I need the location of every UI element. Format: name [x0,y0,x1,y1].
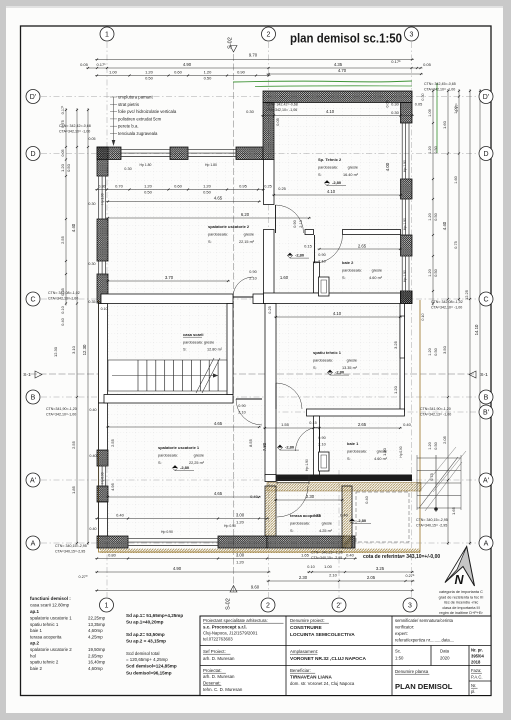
svg-text:tehn. C. D. Muresan: tehn. C. D. Muresan [203,687,243,692]
svg-text:hol: hol [30,653,36,658]
svg-text:CTA=342,10= -1,00: CTA=342,10= -1,00 [424,88,455,92]
svg-text:B: B [31,395,36,402]
svg-text:3.70: 3.70 [165,275,174,280]
svg-text:baie 2: baie 2 [342,260,354,265]
dim total 9.60 bottom [95,589,414,591]
right dim 12.25 [469,89,471,545]
svg-text:-2,80: -2,80 [285,445,295,450]
svg-text:0.50: 0.50 [144,190,153,195]
svg-text:pardoseala:: pardoseala: [313,359,333,363]
svg-text:folie pvc/ hidroizolatie verti: folie pvc/ hidroizolatie verticala [118,109,177,114]
window Hp0.90 left wall lower [98,466,108,486]
glazed door hol-terasa [277,475,309,485]
svg-text:0.50: 0.50 [434,442,438,449]
svg-text:13,35mp: 13,35mp [88,622,106,627]
surface totals list [126,613,183,676]
level marker spatiu tehnic 1 -2.80 [327,370,349,375]
svg-text:Nr.: Nr. [471,683,476,688]
svg-text:D': D' [483,94,489,101]
terrain level note left bottom [55,544,87,554]
right dim chain 2 [458,89,460,301]
axis marker D [26,147,40,161]
svg-text:4.65: 4.65 [214,421,223,426]
dim 6.20 spalatorie 2 - hol [106,217,311,219]
svg-text:gresie: gresie [244,233,254,237]
title block table [200,616,491,696]
svg-text:0.27⁵: 0.27⁵ [406,574,415,578]
svg-text:Sp. Tehnic 2: Sp. Tehnic 2 [318,157,342,162]
svg-text:0.30: 0.30 [246,109,255,114]
terrain level note top right [424,82,456,92]
svg-text:2.10: 2.10 [318,260,325,264]
svg-text:1.85: 1.85 [71,485,76,494]
svg-text:1.20: 1.20 [145,70,154,75]
svg-text:1.20: 1.20 [203,184,212,189]
svg-text:pardoseala:: pardoseala: [347,450,367,454]
svg-text:0.40: 0.40 [340,513,349,518]
section line S-1 [30,373,476,375]
room label spalatorie uscatorie 2 [208,224,255,244]
axis marker 1 [100,598,114,612]
svg-text:expert:: expert: [395,631,408,636]
grid axis lines [106,42,108,597]
svg-text:22,25mp: 22,25mp [88,616,106,621]
svg-text:0.05: 0.05 [423,62,432,67]
hol west wall below Sp.Tehnic 2 [264,160,275,205]
dim 4.65 spalatorie 2 [106,200,261,202]
svg-text:0.50: 0.50 [204,76,213,81]
svg-text:0.60: 0.60 [174,70,183,75]
dim 2.30 terasa [274,499,344,501]
svg-text:0.90: 0.90 [238,404,245,408]
building importance category note [439,590,484,615]
svg-text:0.30: 0.30 [88,262,95,266]
left outer wall pier 2 [97,219,108,261]
svg-text:ap.2: ap.2 [30,641,40,646]
dim 2.65 baie 2 [318,248,403,250]
svg-text:Beneficiar:: Beneficiar: [290,668,311,673]
dim 3.70 [106,280,230,282]
wall build-up annotation [110,95,177,147]
svg-text:0.40: 0.40 [346,553,355,558]
svg-text:gresie: gresie [322,522,332,526]
plumbing shaft baie 2 [319,277,330,296]
svg-text:S:: S: [183,348,187,352]
svg-text:0.05: 0.05 [61,150,65,157]
svg-text:1.20: 1.20 [393,385,398,394]
svg-text:1.20: 1.20 [428,213,432,220]
svg-text:0.50: 0.50 [434,146,438,153]
svg-text:14.10: 14.10 [474,324,479,335]
svg-text:regim de inaltime D+P+Er: regim de inaltime D+P+Er [439,611,483,615]
axis marker 1 [100,27,114,41]
svg-text:Su ap.1=40,20mp: Su ap.1=40,20mp [126,620,164,625]
title block col 1 [203,618,283,692]
svg-text:0.40: 0.40 [403,422,412,427]
svg-text:spatiu tehnic 1: spatiu tehnic 1 [30,622,59,627]
dim 4.65 spalatorie 1 top [106,426,261,428]
axis marker C [26,292,40,306]
svg-text:4.10: 4.10 [333,311,342,316]
svg-text:0.80: 0.80 [108,553,117,558]
axis marker B [26,390,40,404]
svg-text:dom. str. Voronet 24, Cluj Nap: dom. str. Voronet 24, Cluj Napoca [290,681,355,686]
partition hol / baie 2 [314,262,320,293]
svg-text:1.00: 1.00 [109,70,118,75]
svg-text:1.20: 1.20 [236,520,245,525]
svg-text:3.50: 3.50 [442,345,447,354]
interior wall on C axis west part [101,294,233,304]
svg-text:2020: 2020 [440,656,450,661]
top wall pier between windows [170,147,188,160]
svg-text:CTN=341,90=-1,20: CTN=341,90=-1,20 [420,407,451,411]
svg-text:CTN= 342,45=-0,65: CTN= 342,45=-0,65 [424,82,456,86]
svg-text:Hp 0.90: Hp 0.90 [224,524,236,528]
svg-text:-2,80: -2,80 [295,253,305,258]
svg-text:2.55: 2.55 [71,440,76,449]
svg-text:2.30: 2.30 [299,575,308,580]
svg-text:0.95: 0.95 [239,184,248,189]
south wall of baie 1 (A-prime axis) [267,475,412,482]
svg-text:pardoseala:: pardoseala: [318,166,338,170]
svg-text:Proiectat:: Proiectat: [203,668,222,673]
svg-text:0.70: 0.70 [115,184,124,189]
svg-text:Sd ap.1= 51,65mp+4,25mp: Sd ap.1= 51,65mp+4,25mp [126,613,183,618]
axis marker 2' [332,598,346,612]
axis marker A [479,536,493,550]
svg-text:0.40: 0.40 [365,496,369,503]
svg-text:Hp 1.90: Hp 1.90 [403,160,407,172]
svg-text:Sd ap.2= 53,50mp: Sd ap.2= 53,50mp [126,632,165,637]
terrain level note right bottom [416,518,448,528]
right outer wall corner at C axis [401,291,413,304]
svg-text:-2,80: -2,80 [180,465,190,470]
terrain level note right B axis [420,407,451,417]
svg-text:0.90: 0.90 [237,70,246,75]
dim chain top windows west [95,74,271,76]
svg-text:2: 2 [266,603,270,610]
east boundary wall (thin, to neighbour) [400,304,405,413]
svg-text:Data: Data [440,649,450,654]
svg-text:0.10: 0.10 [421,313,425,320]
svg-text:clasa de importanta III: clasa de importanta III [442,606,479,610]
svg-text:0.60: 0.60 [174,184,183,189]
svg-text:0.50: 0.50 [203,190,212,195]
svg-text:0.30: 0.30 [391,102,400,107]
svg-text:S:: S: [208,240,212,244]
dim chain under D wall [95,188,265,190]
window Hp1.80 top wall west [121,149,170,159]
svg-text:CTA=342,10= -1,00: CTA=342,10= -1,00 [431,306,462,310]
svg-text:Hp 1.80: Hp 1.80 [140,163,152,167]
svg-text:gresie: gresie [372,269,382,273]
svg-text:1.55: 1.55 [281,422,290,427]
svg-text:1.20: 1.20 [428,269,432,276]
dim 4.65 spalatorie 1 bottom [106,496,261,498]
svg-text:0.40: 0.40 [89,527,96,531]
svg-text:0.75: 0.75 [60,119,65,128]
svg-text:2.10: 2.10 [238,411,245,415]
svg-text:D: D [483,151,488,158]
svg-text:Nr. pr.: Nr. pr. [471,648,483,653]
svg-text:0.35: 0.35 [88,300,95,304]
svg-text:Sc.: Sc. [395,649,401,654]
left dim chain walls [65,108,67,306]
svg-text:0.05: 0.05 [386,101,390,108]
svg-text:4.40: 4.40 [71,223,76,232]
left outer wall corner at C axis [97,274,108,303]
partition hol / baie 1 [314,416,320,480]
svg-text:1.20: 1.20 [428,348,432,355]
axis marker 3 [405,27,419,41]
svg-text:VORONET NR.32 ,CLUJ NAPOCA: VORONET NR.32 ,CLUJ NAPOCA [290,656,366,662]
svg-text:2.10: 2.10 [318,443,325,447]
svg-text:1.65: 1.65 [301,553,310,558]
svg-text:N: N [454,573,464,587]
svg-text:casa scarii: casa scarii [183,332,203,337]
svg-text:6.20: 6.20 [241,212,250,217]
svg-text:4.10: 4.10 [327,189,336,194]
dashed roof overhang over terasa [356,492,409,542]
door casa scarii (C axis) [233,277,253,297]
corner pier C axis east [401,291,413,304]
svg-text:1: 1 [105,32,109,39]
svg-text:CTA=342,10=-1,00: CTA=342,10=-1,00 [46,413,76,417]
window Hp1.90 left wall upper [98,176,108,219]
terasa west wall (timber) [265,486,276,536]
svg-text:Scd demisol=124,85mp: Scd demisol=124,85mp [126,664,177,669]
left wall spalatorie 1 lower thin part [99,502,108,536]
dim 4.10 sp tehnic 2 low [272,194,403,196]
svg-text:4.90: 4.90 [173,566,182,571]
svg-text:0.15: 0.15 [309,421,316,425]
axis marker D' [26,90,40,104]
svg-text:1.60: 1.60 [454,176,458,183]
dim chain above bottom wall [95,517,269,519]
svg-text:A': A' [483,478,489,485]
window Hp1.90 right wall lower [401,256,411,291]
svg-text:0.10: 0.10 [101,307,108,311]
terrain level note left B axis [46,407,77,417]
svg-text:B': B' [483,410,489,417]
svg-text:plan demisol sc.1:50: plan demisol sc.1:50 [290,32,402,46]
central spine wall (axis 2) [265,304,276,477]
svg-text:3: 3 [410,32,414,39]
svg-text:0.30: 0.30 [98,184,106,189]
svg-text:TIRNAVEAN LIANA: TIRNAVEAN LIANA [290,675,332,680]
svg-text:0.35: 0.35 [61,288,65,295]
exterior stair treads (SE corner) [417,455,462,512]
svg-text:Desenat:: Desenat: [203,681,221,686]
svg-text:2.05: 2.05 [442,435,447,444]
svg-text:0.27⁰: 0.27⁰ [79,575,88,579]
svg-text:2: 2 [267,32,271,39]
svg-text:referat/expertiza nr..........: referat/expertiza nr..........data.... [395,638,454,643]
svg-text:0.10: 0.10 [307,565,314,569]
svg-text:S:: S: [313,366,317,370]
svg-text:0.05: 0.05 [415,103,422,107]
svg-text:4.70: 4.70 [338,68,347,73]
svg-text:S:: S: [347,457,351,461]
neighbour stair diagonals above [419,447,466,492]
svg-text:spalatorie uscatorie 2: spalatorie uscatorie 2 [208,224,250,229]
svg-text:pardoseala:: pardoseala: [342,269,362,273]
svg-text:D': D' [30,94,36,101]
svg-text:CTA=340,15= -2,95: CTA=340,15= -2,95 [416,524,447,528]
svg-text:2.30: 2.30 [306,494,315,499]
bottom wall west corner pier [97,536,128,548]
svg-text:Faza:: Faza: [471,668,481,673]
svg-text:A: A [31,541,36,548]
svg-text:CTA=342,10=-1,00: CTA=342,10=-1,00 [48,297,78,301]
dim chain top axis spans [86,67,423,69]
svg-text:-2,80: -2,80 [357,518,367,523]
axis marker D' [479,90,493,104]
svg-text:22,25 m²: 22,25 m² [189,461,205,465]
right outer wall pier 2 [401,179,413,199]
svg-text:Denumire plansa: Denumire plansa [395,669,429,674]
right dim chain windows [432,89,434,306]
svg-text:4.65: 4.65 [214,196,223,201]
svg-text:Scd demisol total: Scd demisol total [126,651,159,656]
terrain level note top centre [266,103,298,113]
svg-text:categoria de importanta C: categoria de importanta C [439,590,483,594]
svg-text:casa scarii 12.80mp: casa scarii 12.80mp [30,603,70,608]
door spatiu tehnic 1 [276,383,302,409]
svg-text:gresie: gresie [347,359,357,363]
svg-text:1.80: 1.80 [382,447,387,456]
svg-text:ap.1: ap.1 [30,609,40,614]
svg-text:CONSTRUIRE: CONSTRUIRE [290,625,323,631]
svg-text:Amplasament:: Amplasament: [290,649,318,654]
svg-text:1.65: 1.65 [451,506,456,515]
plumbing shaft baie 1 [319,452,330,471]
axis marker C [479,292,493,306]
svg-text:pardoseala: gresie: pardoseala: gresie [183,341,214,345]
svg-text:Denumire proiect:: Denumire proiect: [290,618,325,623]
door baie 2 [315,235,343,263]
spatiu tehnic 1 south wall (B-prime) [307,409,405,416]
svg-text:22.15 m²: 22.15 m² [239,240,255,244]
svg-text:0.30: 0.30 [124,167,131,171]
svg-text:19,50mp: 19,50mp [88,647,106,652]
svg-text:0.50: 0.50 [66,163,71,172]
terrain level note right mid [431,300,463,310]
left outer wall pier lower 1 [97,450,108,466]
svg-text:3.25: 3.25 [376,566,385,571]
level marker hol -2.80 [277,445,299,450]
axis marker A' [479,473,493,487]
svg-text:CTN= 340,15=-2,95: CTN= 340,15=-2,95 [416,518,448,522]
svg-text:0.05: 0.05 [276,118,280,125]
svg-text:0.40: 0.40 [61,318,65,325]
level marker spalatorie 2 -2.80 [287,253,309,258]
svg-text:tenciuala zugraveala: tenciuala zugraveala [118,131,158,136]
svg-text:2': 2' [336,603,341,610]
svg-text:1.20: 1.20 [428,442,432,449]
svg-text:CTN= 342,42=-0,68: CTN= 342,42=-0,68 [266,103,298,107]
svg-text:Su ap.2 = 43,15mp: Su ap.2 = 43,15mp [126,639,166,644]
dim 4.70 top east [267,73,424,75]
svg-text:S-1: S-1 [23,372,31,378]
svg-text:Hp 1.80: Hp 1.80 [205,163,217,167]
dim total 9.70 top [95,58,414,60]
svg-text:2.55: 2.55 [60,235,65,244]
window Hp1.90 right wall upper [401,123,411,179]
svg-text:0.75: 0.75 [430,473,434,480]
svg-text:2018: 2018 [471,660,481,665]
top wall east pier [236,147,263,160]
svg-text:4,25mp: 4,25mp [88,634,103,639]
top wall D axis corner pier [97,147,121,160]
svg-text:12.80 m²: 12.80 m² [207,348,223,352]
left wall of stair bay (thin) [99,304,108,404]
room label Sp. Tehnic 2 [318,157,359,177]
svg-text:S-1: S-1 [480,372,488,378]
svg-text:CTA=340,15= -2,95: CTA=340,15= -2,95 [311,556,342,560]
svg-text:S:: S: [158,461,162,465]
svg-text:Hp 1.90: Hp 1.90 [305,459,309,471]
svg-text:0.50: 0.50 [434,213,438,220]
section marker S-02 bottom [226,586,238,610]
svg-text:12.30: 12.30 [82,344,87,355]
svg-text:baie 1: baie 1 [347,441,359,446]
svg-text:0.05: 0.05 [80,62,89,67]
svg-text:0.17¹: 0.17¹ [96,62,106,67]
svg-text:S-02: S-02 [228,37,234,49]
left outer wall corner pier [97,147,108,176]
svg-text:pl.: pl. [471,689,475,694]
north arrow [445,547,475,588]
svg-text:gresie: gresie [348,166,358,170]
svg-text:1.60: 1.60 [280,275,289,280]
svg-text:0.50: 0.50 [434,269,438,276]
svg-text:P.A.C.: P.A.C. [471,675,483,680]
svg-text:risc de incendiu -mic: risc de incendiu -mic [444,601,479,605]
svg-text:0.40: 0.40 [89,454,96,458]
svg-text:0.90: 0.90 [318,436,325,440]
svg-text:Hp 1.90: Hp 1.90 [403,218,407,230]
svg-text:Su demisol=96,15mp: Su demisol=96,15mp [126,671,172,676]
svg-text:7.80: 7.80 [262,442,267,451]
svg-text:4.95: 4.95 [110,482,115,491]
corner hol-terasa [265,475,276,482]
door baie 1 [296,427,320,451]
room label spatiu tehnic 1 [313,350,358,370]
svg-text:perete b.a.: perete b.a. [118,124,139,129]
svg-text:1.20: 1.20 [236,560,245,565]
room label baie 1 [347,441,388,461]
svg-text:pardoseala:: pardoseala: [208,233,228,237]
dim chain under D-prime wall [261,114,414,116]
interior wall C axis stub at stair door [253,294,274,304]
window left wall small [98,261,108,274]
svg-text:0.10: 0.10 [61,306,65,313]
svg-text:A: A [484,541,489,548]
axis marker 2 [261,598,275,612]
svg-text:arh. D. Muresan: arh. D. Muresan [203,674,235,679]
window in east thin wall [400,316,405,358]
wall on C axis east part / top of spatiu tehnic 1 [264,293,401,304]
svg-text:2.65: 2.65 [358,422,367,427]
svg-text:S:: S: [290,529,294,533]
window Hp0.90 bottom wall [128,538,218,548]
axis marker 2 [262,27,276,41]
svg-text:4,60mp: 4,60mp [88,628,103,633]
svg-text:Hp 0.90: Hp 0.90 [399,446,403,457]
svg-text:395/04: 395/04 [471,654,484,659]
svg-text:verificator:: verificator: [395,625,414,630]
